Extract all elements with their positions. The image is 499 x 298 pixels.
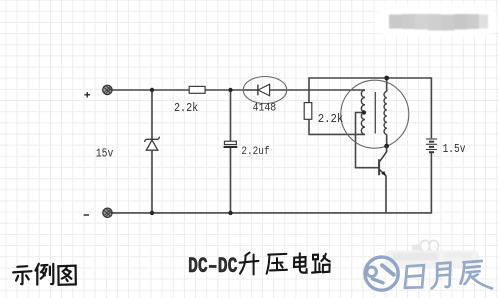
node bottom (capacitor) <box>228 211 232 215</box>
primary winding (left coil) <box>361 90 365 134</box>
node A (junction left) <box>150 88 154 92</box>
wire upper: R2 top to battery corner <box>309 78 431 138</box>
svg-text:15v: 15v <box>96 146 114 160</box>
wire: node to left of diode bar <box>244 89 258 91</box>
char 路 <box>312 254 330 273</box>
emitter arrow <box>381 171 386 176</box>
wire top: terminal+ to resistor R1 <box>112 89 189 91</box>
label + <box>84 92 90 98</box>
transformer T1 circle <box>341 80 409 148</box>
resistor R2 2.2k (vertical) <box>304 103 312 120</box>
svg-text:2.2k: 2.2k <box>318 112 344 126</box>
logo circle <box>365 257 398 290</box>
watermark mosaic top right <box>375 3 497 37</box>
svg-text:2.2k: 2.2k <box>174 101 198 115</box>
node bottom left (zener) <box>150 211 154 215</box>
resistor R1 2.2k (horizontal) <box>189 86 205 93</box>
transformer core <box>374 92 376 134</box>
char 升 <box>240 253 259 275</box>
char 电 <box>294 253 307 272</box>
char 例 <box>36 264 54 285</box>
char 示 <box>13 266 31 284</box>
battery B1 1.5v <box>426 139 437 152</box>
transistor Q1 <box>379 146 387 176</box>
char 辰 <box>461 261 492 288</box>
wire: zener branch top <box>151 90 153 139</box>
watermark bottom right <box>385 240 480 267</box>
terminal - (bottom left) <box>103 208 112 217</box>
label - <box>84 214 89 216</box>
diode 4148 in ellipse <box>243 77 287 104</box>
capacitor C1 2.2uf <box>224 141 236 144</box>
node top (secondary to battery rail) <box>384 76 389 81</box>
char 月 <box>432 263 451 289</box>
terminal + (top left) <box>103 85 112 94</box>
char 日 <box>405 265 424 288</box>
char 压 <box>267 254 287 274</box>
svg-text:DC–DC: DC–DC <box>188 254 238 279</box>
svg-text:4148: 4148 <box>253 103 277 115</box>
node tap on primary <box>362 110 366 114</box>
wire: capacitor branch bottom <box>230 148 232 213</box>
wire: secondary bottom to collector node <box>386 135 388 147</box>
svg-text:1.5v: 1.5v <box>443 142 466 156</box>
wire: emitter down to bottom rail <box>385 176 387 213</box>
wire: R2 bottom to primary bottom <box>309 119 365 134</box>
wire: zener branch bottom <box>151 150 153 213</box>
char 图 <box>58 266 75 285</box>
wire: top node to secondary top <box>386 78 388 92</box>
node collector <box>384 144 389 149</box>
node B (junction at capacitor top) <box>228 88 232 92</box>
wire: coil tap to transistor base <box>356 113 379 168</box>
zener diode D1 <box>145 137 160 151</box>
wire: diode to transformer primary top <box>270 89 365 91</box>
wire: battery bottom down and bottom rail <box>112 153 431 213</box>
secondary winding (right coil) <box>384 92 387 135</box>
svg-text:2.2uf: 2.2uf <box>241 146 269 158</box>
wire: capacitor branch top <box>230 90 232 141</box>
wire: R1 to diode ellipse <box>205 89 244 91</box>
